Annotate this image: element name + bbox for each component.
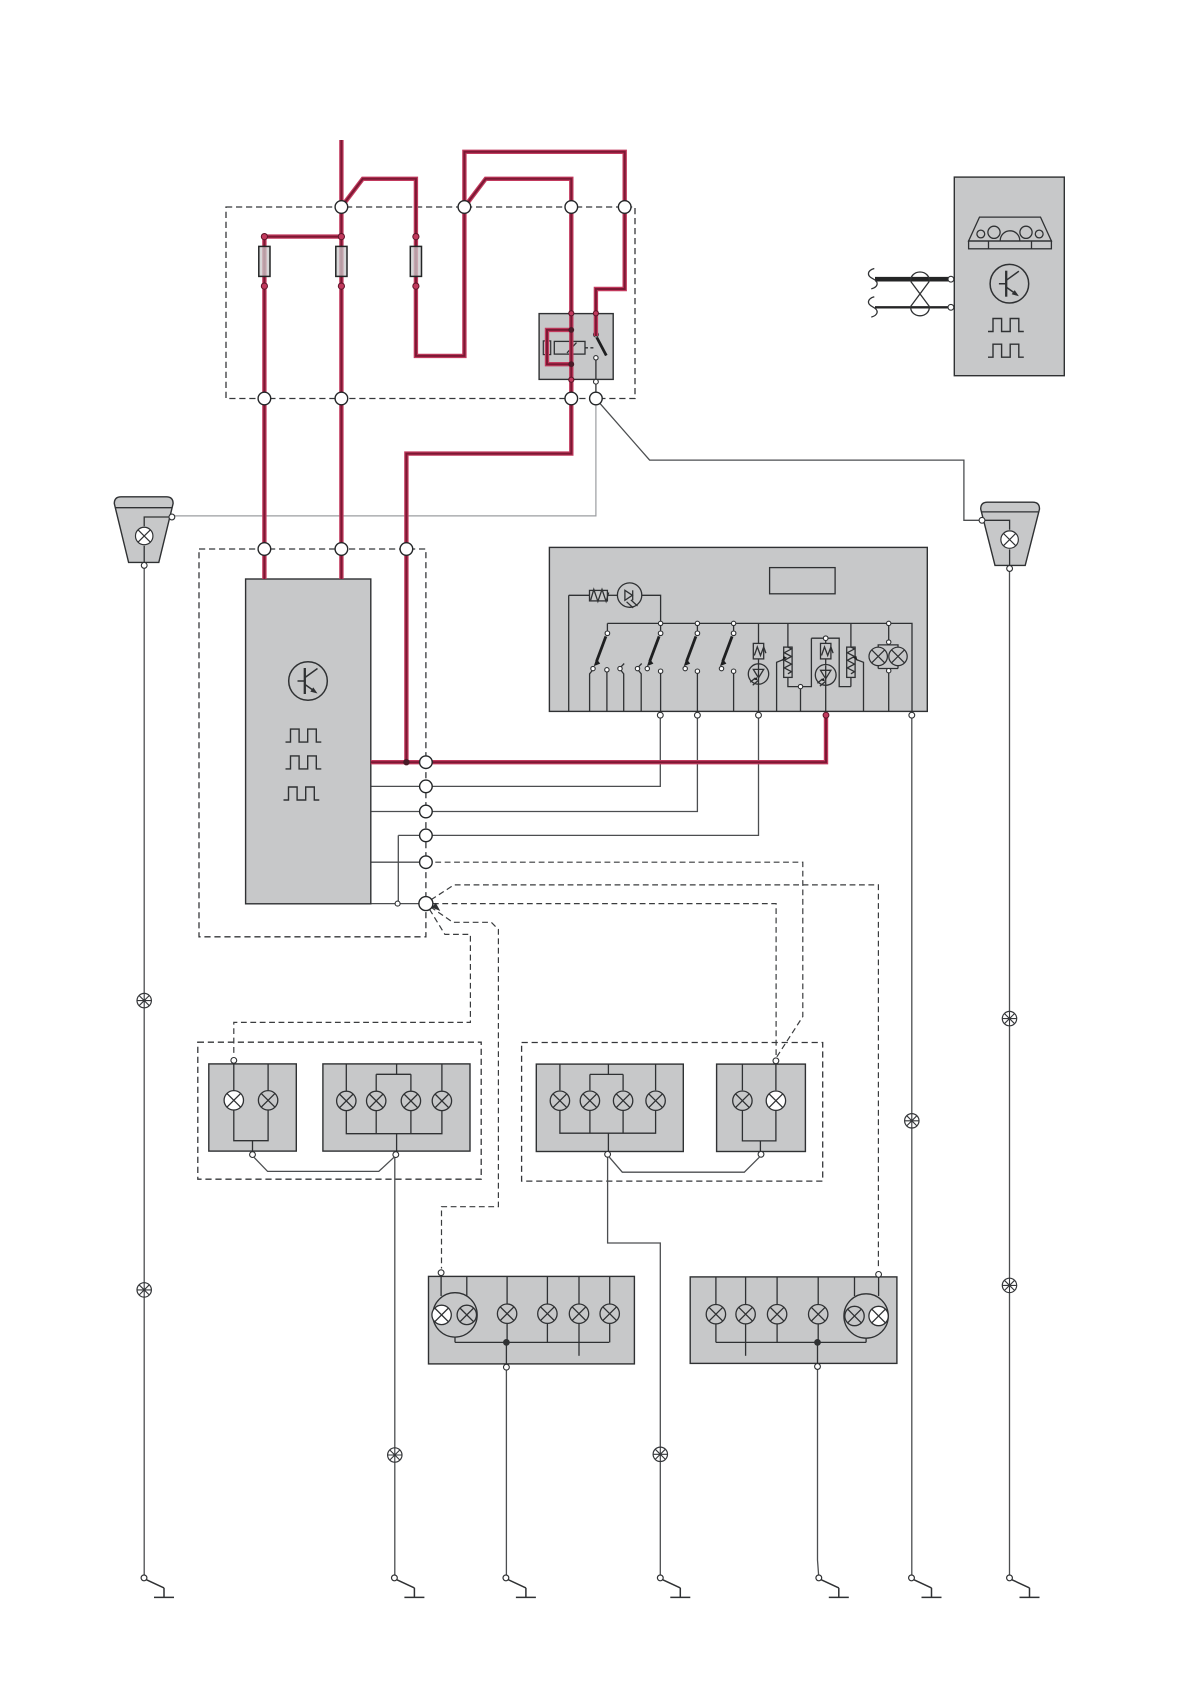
- red wire: fuse2 output to ECU: [339, 399, 343, 580]
- left cluster twin bulb 1: [432, 1305, 451, 1324]
- headlamp C bulb 4: [646, 1091, 665, 1110]
- fuse F1: [259, 246, 270, 276]
- ECU pulse icon 1: [286, 729, 322, 742]
- wire: left tail cluster to ground G3: [505, 1370, 507, 1575]
- headlamp B bulb 2: [367, 1091, 386, 1110]
- wire: ECU out 3 to switch pin 2: [371, 718, 698, 812]
- fuse F2: [336, 246, 347, 276]
- right position lamp bulb: [1001, 531, 1018, 548]
- red wire: relay out down-left to ECU feed 3: [406, 379, 571, 761]
- pilot lamp left: [869, 647, 887, 665]
- wire: right tail cluster to ground G5: [818, 1369, 819, 1575]
- ground G2: [392, 1575, 425, 1597]
- right position lamp pins: [979, 517, 985, 523]
- left position lamp housing: [114, 497, 173, 565]
- headlamp D pins: [773, 1058, 779, 1064]
- twisted pair pins: [948, 276, 954, 282]
- headlamp A pins: [231, 1058, 237, 1064]
- fuse F3: [410, 246, 421, 276]
- instrument cluster module box (top right): [954, 177, 1064, 376]
- dashed wire: ground node fan 2 to right headlamp pin: [433, 904, 776, 1057]
- headlamp C bulb 2: [580, 1091, 599, 1110]
- switch module display window: [770, 568, 836, 594]
- splice S3 on left headlamp ground wire: [388, 1448, 402, 1462]
- dimmer branch 4 potentiometer: [847, 623, 864, 711]
- left position lamp pins: [169, 514, 175, 520]
- ground G4: [657, 1575, 690, 1597]
- left cluster bulb 5: [569, 1304, 588, 1323]
- red wire: relay coil loop: [547, 330, 571, 364]
- headlight switch module box: [549, 547, 927, 711]
- twisted pair wire (thin): [868, 297, 948, 317]
- ground G1: [141, 1575, 174, 1597]
- relay coil: [554, 341, 585, 354]
- ECU dashed box: [199, 549, 426, 937]
- dimmer branch 2 potentiometer: [777, 623, 812, 711]
- headlamp C bulb 1: [550, 1091, 569, 1110]
- headlamp A bulb 1: [224, 1091, 243, 1110]
- left cluster pins: [438, 1270, 444, 1276]
- right cluster bulb 5: [767, 1305, 786, 1324]
- headlamp B bulb 1: [337, 1091, 356, 1110]
- splice S4 on right headlamp ground wire: [653, 1447, 667, 1461]
- left headlamp pin joining wire: [254, 1157, 395, 1172]
- headlamp C pin: [605, 1151, 611, 1157]
- headlamp D bulb 2: [766, 1091, 785, 1110]
- dashed wire: ground node fan 3 to left tail cluster: [431, 907, 499, 1269]
- dashed wire: ECU out 5 to right headlamp pin: [426, 862, 803, 1057]
- fuse pin circles: [261, 234, 419, 290]
- instrument module pulse icon 2: [988, 344, 1024, 357]
- relay contact blade: [594, 332, 607, 398]
- right cluster bulb 3: [706, 1305, 725, 1324]
- splice S7 on right position lamp ground wire: [1002, 1278, 1016, 1292]
- right cluster twin-filament housing: [844, 1294, 888, 1338]
- wire: right position lamp to ground G7: [1009, 571, 1011, 1575]
- left position lamp bulb: [135, 527, 152, 544]
- right headlamp assembly dashed box: [522, 1043, 823, 1182]
- left tail lamp cluster box: [429, 1276, 635, 1364]
- wire: switch module pin 5 to ground G6: [911, 718, 913, 1575]
- switch module pins: [657, 712, 914, 718]
- switch supply bus: [607, 623, 912, 711]
- switch 3: [683, 621, 700, 711]
- relay coil shunt resistor: [543, 341, 550, 355]
- left cluster bulb 3: [497, 1304, 516, 1323]
- fuse box dashed border: [226, 207, 635, 399]
- wire: right headlamp junction to ground G4: [608, 1157, 661, 1575]
- headlamp D bulb 1: [733, 1091, 752, 1110]
- twist symbol: [911, 272, 930, 316]
- switch 4: [719, 621, 736, 711]
- red wire: node B3 diagonal to relay coil column: [464, 179, 571, 380]
- wire: ECU out 5 solid stub: [371, 861, 426, 863]
- switch 2: [645, 621, 663, 711]
- ECU boundary nodes (top): [258, 543, 413, 556]
- illumination LED: [607, 583, 660, 621]
- left cluster junction dot: [503, 1339, 510, 1346]
- ground G3: [503, 1575, 536, 1597]
- right cluster junction dot: [814, 1339, 821, 1346]
- right position lamp housing: [981, 502, 1040, 568]
- dimmer branch 1 resistor and LED: [748, 623, 768, 711]
- relay pin circles on red wires: [568, 311, 598, 383]
- pilot lamp right: [889, 647, 907, 665]
- ground G7: [1007, 1575, 1040, 1597]
- red wire: ECU to headlight switch feed: [371, 718, 826, 762]
- fuse box boundary nodes (bottom): [258, 392, 602, 405]
- headlamp A bulb 2: [258, 1091, 277, 1110]
- splice S2 on left position lamp ground wire: [137, 1283, 151, 1297]
- right cluster twin bulb 2: [869, 1306, 888, 1325]
- ground G5: [816, 1575, 849, 1597]
- switch 1 spare contacts: [618, 664, 642, 712]
- left cluster bulb 6: [600, 1304, 619, 1323]
- node column circles: [395, 756, 433, 911]
- wire: ECU ground out: [371, 903, 426, 905]
- dashed wire: ground node fan 4 to left headlamp pin: [234, 909, 471, 1056]
- splice S6 on right position lamp ground wire: [1002, 1011, 1016, 1025]
- right headlamp unit C box: [536, 1064, 683, 1151]
- ground G6: [909, 1575, 942, 1597]
- right cluster pins: [876, 1272, 882, 1278]
- dimmer branch 3 resistor and LED: [811, 636, 851, 712]
- wire: relay output to left position lamp (light gray): [173, 405, 596, 516]
- right headlamp pin joining wire: [609, 1157, 760, 1173]
- headlamp B bulb 3: [401, 1091, 420, 1110]
- ECU transistor icon: [289, 662, 328, 701]
- ECU pulse icon 3: [284, 787, 320, 800]
- splice S5 on switch ground wire: [905, 1114, 919, 1128]
- wire: ECU out 2 to switch pin 1: [371, 718, 661, 786]
- ECU pulse icon 2: [286, 756, 322, 769]
- switch 1: [590, 623, 610, 711]
- red feed wire: stub and fuse 2 branch: [339, 140, 343, 399]
- right cluster twin bulb 1: [845, 1306, 864, 1325]
- headlamp C bulb 3: [613, 1091, 632, 1110]
- ECU control module box: [246, 579, 371, 904]
- relay coil-contact dashed link: [585, 347, 594, 349]
- twisted pair wire (thick) to instrument module: [868, 269, 948, 289]
- wire: left position lamp to ground G1: [143, 568, 145, 1575]
- headlamp B bulb 4: [432, 1091, 451, 1110]
- right cluster bulb 6: [809, 1305, 828, 1324]
- dashed wire: ground node fan 1 to right tail cluster: [431, 885, 878, 1270]
- illumination rheostat: [569, 589, 609, 601]
- headlamp B pin: [393, 1152, 399, 1158]
- left cluster twin-filament housing: [433, 1293, 477, 1337]
- red wire: fuse3 riser to relay contact feed loop: [464, 152, 624, 336]
- wire: relay output to right position lamp: [600, 404, 979, 521]
- red wire: link to fuse 1: [264, 237, 341, 399]
- junction dot on red feed at ECU: [403, 759, 409, 765]
- relay box: [539, 314, 613, 380]
- wire: ECU out 4 to switch pin 3: [398, 718, 758, 902]
- left headlamp unit B box: [323, 1064, 470, 1151]
- switch pilot lamp pair: [878, 621, 898, 711]
- fuse box boundary nodes (top): [335, 201, 631, 214]
- left cluster twin bulb 2: [457, 1305, 476, 1324]
- splice S1 on left position lamp ground wire: [137, 993, 151, 1007]
- red wire: fuse1 output to ECU: [262, 399, 266, 580]
- ground node arrow: [432, 903, 441, 911]
- wire: left headlamp junction to ground G2: [394, 1157, 396, 1575]
- instrument module transistor icon: [990, 264, 1029, 303]
- right cluster bulb 4: [736, 1305, 755, 1324]
- red wire: node to fuse 3: [341, 179, 464, 356]
- switch module internal left drop: [568, 595, 570, 711]
- left cluster bulb 4: [538, 1304, 557, 1323]
- left headlamp unit A box: [209, 1064, 296, 1151]
- right tail lamp cluster box: [690, 1277, 897, 1364]
- instrument module pulse icon 1: [988, 319, 1024, 332]
- instrument panel icon: [969, 217, 1052, 249]
- right headlamp unit D box: [717, 1064, 806, 1151]
- left headlamp assembly dashed box: [198, 1042, 481, 1179]
